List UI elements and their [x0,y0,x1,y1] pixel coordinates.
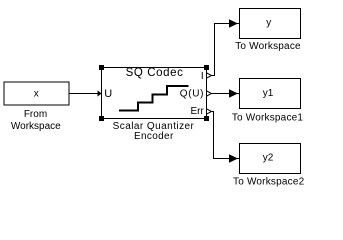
wire I port to y [211,24,240,76]
svg-text:To Workspace1: To Workspace1 [232,113,304,124]
arrowhead into U port [98,90,102,96]
subsystem SQ Codec (Scalar Quantizer Encoder) [102,68,207,119]
selection handle top-left [99,65,104,70]
svg-text:SQ Codec: SQ Codec [126,67,184,79]
arrowhead into y1 [229,89,238,97]
svg-text:Encoder: Encoder [134,131,174,142]
wire Err port to y2 [211,112,240,159]
arrowhead into y [229,19,238,27]
block To Workspace1 (y1) [240,79,301,109]
svg-text:y1: y1 [263,88,274,99]
arrowhead into y2 [229,154,238,162]
output port chevron I [207,73,212,78]
output port chevron Err [207,109,212,114]
staircase quantizer icon [119,86,189,111]
svg-text:To Workspace2: To Workspace2 [233,176,305,187]
svg-text:Workspace: Workspace [11,121,61,132]
output port chevron Q(U) [207,91,212,96]
svg-text:x: x [34,89,39,100]
svg-text:y2: y2 [263,153,274,164]
svg-text:From: From [24,109,47,120]
svg-text:Err: Err [190,106,204,117]
wire Q(U) port to y1 [212,93,240,95]
svg-text:Q(U): Q(U) [180,89,204,100]
block From Workspace (x) [4,82,69,105]
selection handle bottom-right [204,116,209,121]
svg-text:y: y [266,17,271,28]
wire From Workspace to U port [69,93,98,95]
selection handle top-right [204,65,209,70]
svg-text:To Workspace: To Workspace [235,41,301,52]
block To Workspace2 (y2) [240,144,301,174]
block To Workspace (y) [240,9,301,39]
svg-text:I: I [201,71,204,82]
svg-text:U: U [104,88,112,100]
selection handle bottom-left [99,116,104,121]
